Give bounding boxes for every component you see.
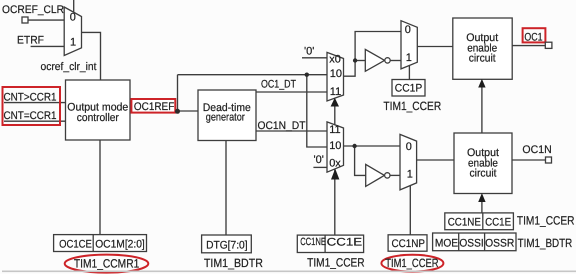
- wire ocref_clr_int: clear mux output to output mode controller: [82, 32, 101, 80]
- register bits OC1CE | OC1M[2:0]: [54, 235, 147, 252]
- mux M2 lower output selector: [327, 122, 344, 172]
- block U3 output mode controller: [66, 80, 131, 140]
- wire ETRF to clear mux input 1: [31, 45, 65, 47]
- node polarity junction upper: [353, 58, 357, 62]
- svg-text:OC1_DT: OC1_DT: [261, 79, 296, 91]
- svg-text:TIM1_CCER: TIM1_CCER: [385, 256, 439, 270]
- arrow select into U5: [478, 79, 485, 88]
- svg-text:0: 0: [70, 12, 76, 24]
- decorative bottom rule: [2, 270, 576, 272]
- svg-text:x0: x0: [329, 54, 341, 66]
- svg-text:generator: generator: [206, 111, 245, 123]
- mux M4 polarity CC1NP: [400, 134, 417, 190]
- svg-text:11: 11: [330, 86, 341, 98]
- block U4 dead-time generator: [198, 90, 256, 141]
- svg-text:11: 11: [329, 124, 340, 136]
- svg-text:CC1NP: CC1NP: [392, 238, 426, 250]
- inverter U2: [366, 164, 385, 186]
- block U5 output enable circuit (OC1): [453, 18, 512, 79]
- wire OC1REF branch down to lower mux input 10: [307, 75, 327, 147]
- svg-text:OC1REF: OC1REF: [134, 101, 175, 113]
- svg-text:OC1CE: OC1CE: [59, 239, 92, 251]
- svg-text:TIM1_BDTR: TIM1_BDTR: [204, 256, 263, 270]
- block U6 output enable circuit (OC1N): [454, 133, 512, 194]
- svg-text:TIM1_CCER: TIM1_CCER: [517, 214, 575, 228]
- register bits MOE | OSSI | OSSR: [433, 233, 516, 251]
- svg-text:controller: controller: [77, 112, 119, 124]
- pin OCREF_CLR: [22, 17, 28, 23]
- wire CC1NP mux output to output enable circuit 2: [417, 159, 454, 161]
- wire select line from CC1NE/CC1E to lower OEC arrow: [481, 202, 483, 213]
- wire inverter U1 output to polarity mux input 1: [390, 60, 401, 62]
- svg-text:OCREF_CLR: OCREF_CLR: [2, 4, 64, 16]
- svg-text:0: 0: [405, 24, 411, 36]
- wire from top edge into clear mux: [73, 0, 75, 14]
- wire from OCREF_CLR pin to clear mux input 0: [28, 19, 64, 21]
- wire OC1REF from output mode controller to node: [130, 110, 198, 112]
- wire OC1_DT from dead-time generator to upper mux input 11: [256, 91, 327, 93]
- wire CC1NP select to CC1NP mux: [409, 186, 411, 235]
- svg-text:CC1P: CC1P: [395, 83, 422, 95]
- arrow select into mux M1: [331, 98, 339, 107]
- svg-text:CNT>CCR1: CNT>CCR1: [4, 91, 57, 103]
- svg-text:OC1N: OC1N: [522, 144, 551, 156]
- wire polarity node to inverter U1: [355, 60, 365, 62]
- wire CNT=CCR1 into output mode controller: [4, 120, 66, 122]
- wire OC1CE/OC1M to output mode controller: [99, 140, 101, 235]
- svg-text:0: 0: [406, 141, 412, 153]
- pin OC1: [545, 42, 552, 48]
- svg-text:TIM1_CCER: TIM1_CCER: [383, 99, 441, 113]
- wire polarity node N down to inverter U2: [355, 146, 366, 175]
- wire lower mux output to polarity node N: [344, 145, 401, 147]
- wire polarity mux output to output enable circuit 1: [417, 46, 453, 48]
- wire select line from lower OEC top to upper OEC arrow: [481, 87, 483, 134]
- wire OC1REF bypass to upper mux input 10: [178, 74, 328, 76]
- node polarity junction lower: [352, 144, 356, 148]
- wire DTG to dead-time generator: [225, 141, 227, 236]
- svg-text:MOE: MOE: [435, 238, 458, 250]
- net label OC1REF (red highlight): [131, 99, 175, 113]
- svg-text:circuit: circuit: [470, 167, 497, 179]
- svg-text:OSSR: OSSR: [485, 238, 514, 250]
- svg-text:OC1N_DT: OC1N_DT: [258, 120, 306, 132]
- svg-text:ocref_clr_int: ocref_clr_int: [41, 61, 97, 73]
- arrow select into U6: [478, 193, 485, 202]
- svg-text:TIM1_CCER: TIM1_CCER: [307, 256, 365, 270]
- register bit CC1NP: [388, 235, 427, 251]
- svg-text:circuit: circuit: [469, 52, 496, 64]
- register label TIM1_CCMR1 (red ellipse): [65, 255, 149, 273]
- svg-text:1: 1: [406, 52, 412, 64]
- svg-text:10: 10: [330, 68, 342, 80]
- node junction OC1REF branch: [305, 73, 309, 77]
- node CNT comparison inputs (red highlight): [3, 87, 61, 125]
- wire '0' constant to lower mux input 0x: [313, 166, 327, 168]
- svg-text:TIM1_BDTR: TIM1_BDTR: [518, 236, 573, 250]
- wire CNT>CCR1 into output mode controller: [4, 102, 66, 104]
- register bits DTG[7:0]: [202, 235, 252, 253]
- svg-text:DTG[7:0]: DTG[7:0]: [206, 239, 248, 251]
- svg-text:1: 1: [407, 169, 413, 181]
- mux M3 polarity CC1P: [401, 21, 417, 69]
- svg-text:CC1E: CC1E: [327, 236, 363, 248]
- inverter U1: [365, 49, 384, 71]
- register bit CC1P: [392, 80, 425, 97]
- svg-text:10: 10: [329, 140, 341, 152]
- wire '0' constant to upper mux input x0: [302, 57, 327, 59]
- svg-text:'0': '0': [304, 46, 314, 58]
- register bits CC1NE | CC1E (right): [445, 213, 514, 230]
- register bits CC1NE | CC1E (left): [297, 235, 363, 252]
- svg-text:CC1E: CC1E: [485, 216, 511, 228]
- arrow select into mux M2: [331, 169, 339, 180]
- svg-text:'0': '0': [314, 154, 324, 166]
- mux ocref-clear selector: [64, 7, 81, 56]
- svg-text:CC1NE: CC1NE: [300, 236, 326, 248]
- wire OC1N_DT from dead-time generator to lower mux input 11: [256, 130, 327, 132]
- pin OC1N: [546, 157, 552, 163]
- wire OC1REF branch up to bypass line: [177, 75, 179, 111]
- svg-text:TIM1_CCMR1: TIM1_CCMR1: [74, 256, 140, 270]
- svg-text:ETRF: ETRF: [17, 35, 44, 47]
- port OC1 (red highlight): [523, 28, 546, 42]
- svg-text:OC1M[2:0]: OC1M[2:0]: [95, 239, 145, 251]
- wire CC1P select to polarity mux: [408, 66, 410, 80]
- svg-text:CNT=CCR1: CNT=CCR1: [4, 110, 57, 122]
- wire OC1N output to pin: [512, 159, 546, 161]
- svg-text:OC1: OC1: [524, 32, 542, 44]
- wire select line from CC1NE/CC1E up through lower mux to upper mux arrow: [334, 105, 336, 235]
- node junction OC1REF: [175, 109, 180, 114]
- register label TIM1_CCER (red ellipse): [381, 255, 443, 272]
- svg-text:0x: 0x: [329, 158, 341, 170]
- mux M1 upper output selector: [327, 52, 344, 101]
- svg-text:CC1NE: CC1NE: [448, 216, 481, 228]
- wire inverter U2 output to CC1NP mux input 1: [390, 174, 400, 176]
- svg-text:OSSI: OSSI: [459, 238, 483, 250]
- wire upper mux output to polarity node: [344, 32, 402, 77]
- svg-text:1: 1: [70, 37, 76, 49]
- wire OC1 output to pin: [512, 45, 545, 47]
